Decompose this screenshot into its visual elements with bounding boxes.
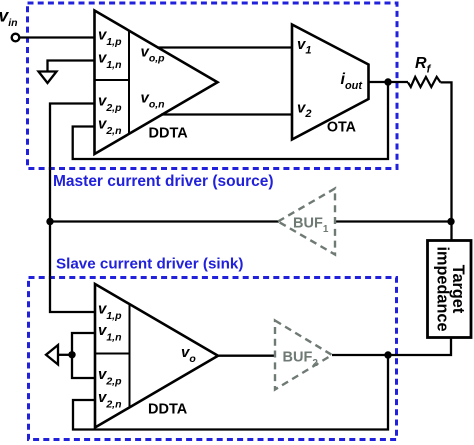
OTA U2 trapezoid xyxy=(292,25,369,140)
wire master v2,n feedback xyxy=(73,82,388,159)
DDTA U3 triangle (slave) xyxy=(95,284,218,428)
wire OTA output to Rf xyxy=(369,81,409,83)
wire vin to DDTA v1,p xyxy=(19,36,95,38)
wire slave feedback xyxy=(73,355,388,430)
wire vo,n to OTA v2 xyxy=(161,113,293,115)
slave dashed box xyxy=(29,278,397,440)
buffer BUF1 (dashed, points left) xyxy=(278,189,335,255)
slave input bracket v1,n / v2,p xyxy=(72,333,94,378)
junction dot right rail / BUF1 xyxy=(447,218,454,225)
wire v1,n to ground xyxy=(48,61,96,72)
target impedance box xyxy=(428,241,472,338)
wire BUF1 output to left rail xyxy=(50,220,279,222)
wire slave output node to BUF2 xyxy=(332,354,388,356)
junction dot slave output node xyxy=(384,351,391,358)
wire vo,p to OTA v1 xyxy=(157,46,293,48)
wire right rail to BUF1 input xyxy=(335,220,451,222)
svg-text:Master current driver (source): Master current driver (source) xyxy=(53,173,274,190)
input terminal vin xyxy=(12,34,20,42)
wire target impedance bottom to slave output node xyxy=(388,338,451,356)
wire master v2,p to left rail xyxy=(50,104,96,313)
master dashed box xyxy=(28,3,398,169)
junction dot slave ground node xyxy=(68,351,75,358)
DDTA U1 inner horizontal divider xyxy=(95,79,130,81)
label Target impedance (rotated) xyxy=(433,246,467,331)
svg-text:OTA: OTA xyxy=(327,120,356,136)
buffer BUF2 (dashed, points right) xyxy=(275,321,332,390)
DDTA U1 inner vertical divider xyxy=(128,31,130,135)
ground (slave, points left) xyxy=(46,345,58,365)
wire Rf to right rail xyxy=(441,82,452,241)
DDTA U1 triangle (master) xyxy=(95,11,218,155)
svg-text:impedance: impedance xyxy=(433,246,451,331)
svg-text:DDTA: DDTA xyxy=(149,125,189,141)
resistor Rf xyxy=(408,77,441,87)
DDTA U3 inner horizontal divider xyxy=(95,353,130,355)
wire slave DDTA output to BUF2 input xyxy=(216,355,276,357)
junction dot left rail / BUF1 xyxy=(46,218,53,225)
svg-text:Slave current driver (sink): Slave current driver (sink) xyxy=(56,256,243,273)
svg-text:DDTA: DDTA xyxy=(148,401,188,417)
wire ground stub (slave) xyxy=(59,354,73,356)
ground (master) xyxy=(39,72,57,84)
junction dot at OTA output node xyxy=(384,78,391,85)
DDTA U3 inner vertical divider xyxy=(129,304,131,408)
